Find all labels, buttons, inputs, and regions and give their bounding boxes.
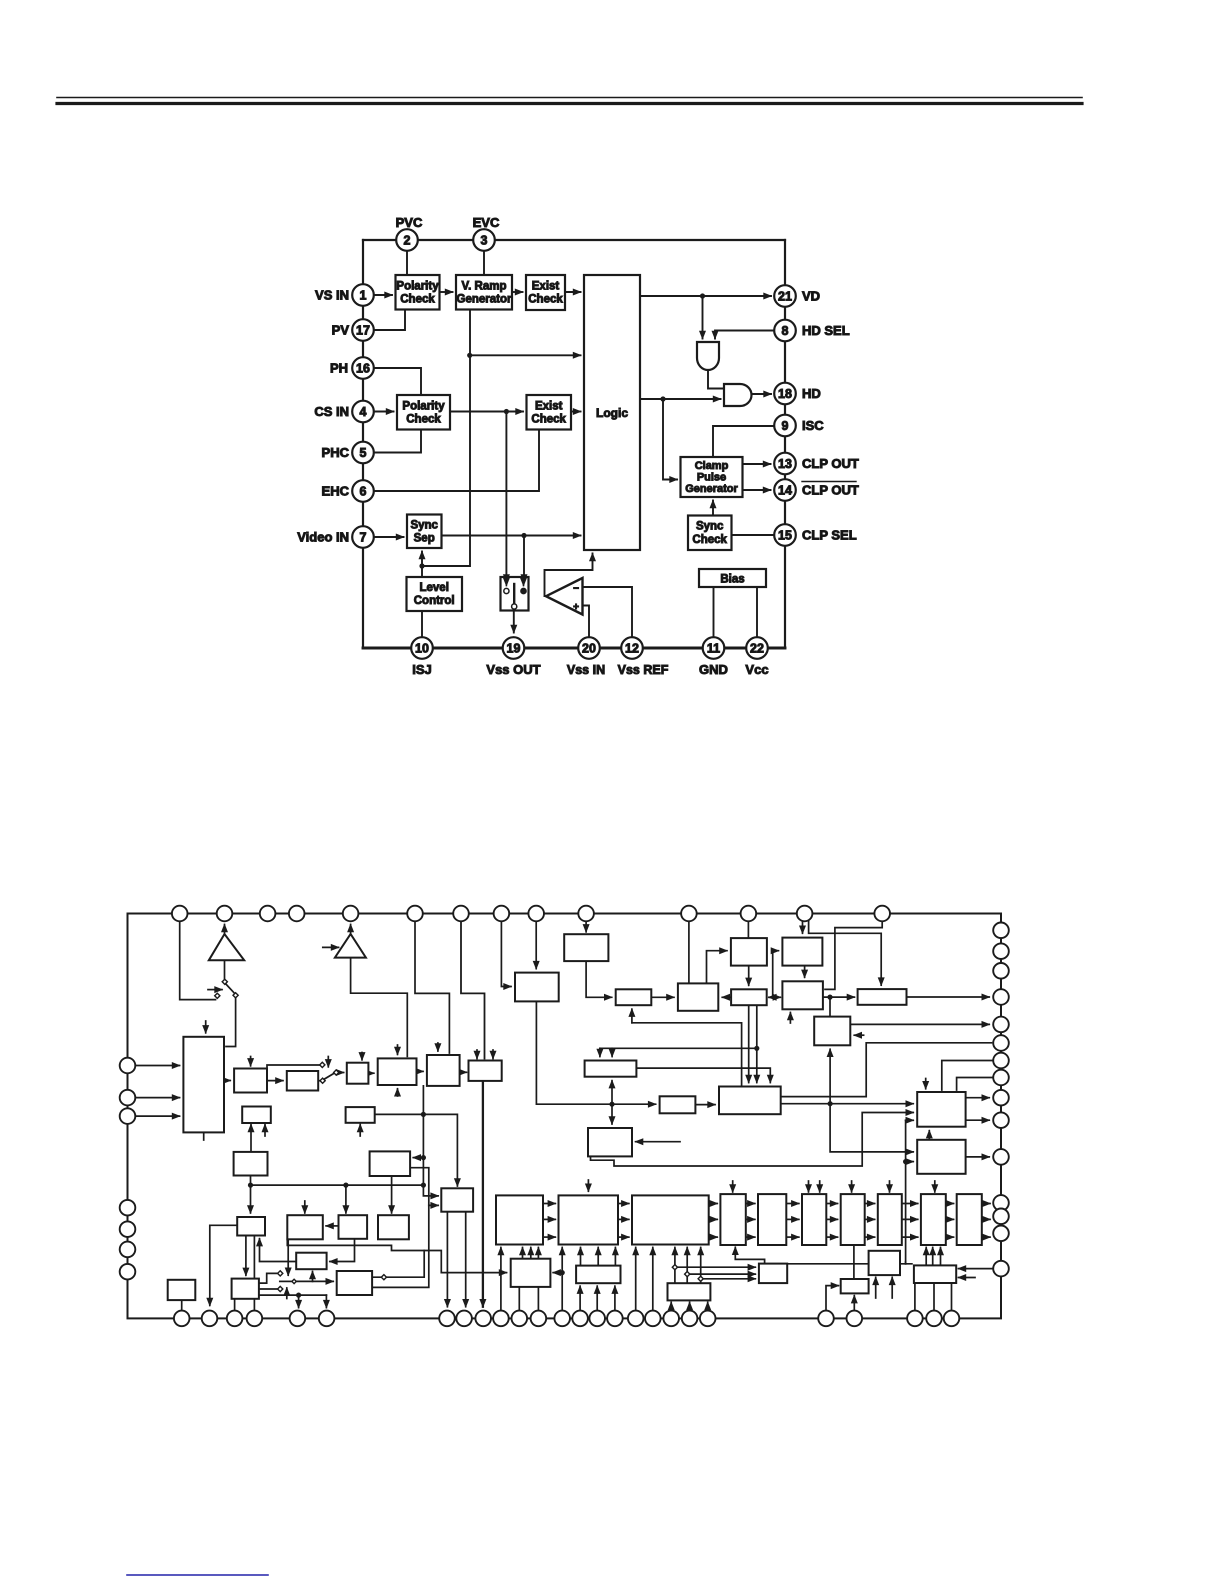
block Sync Sep (407, 515, 442, 549)
left pin to big block wire 3 (135, 1115, 179, 1117)
wire Sync Check to pin15 (732, 534, 775, 536)
pin 5 PHC (352, 442, 374, 464)
block Sync Check (688, 516, 732, 551)
svg-text:Pulse: Pulse (697, 472, 726, 484)
chain arrows gap 5 (786, 1203, 799, 1205)
pin risers into uP3 bottom (670, 1302, 672, 1310)
amp A1 triangle (209, 934, 244, 960)
right pin 15 (993, 1261, 1009, 1277)
pin 16 PH (352, 357, 374, 379)
svg-text:Check: Check (528, 294, 563, 306)
wire block X to block W (695, 1104, 715, 1106)
top pin 12 (741, 906, 757, 922)
node junction on sync line (521, 533, 526, 538)
bottom pin 12 (531, 1311, 547, 1327)
wire switch S3 pivot to b3 (339, 1072, 344, 1074)
top pin 7 (453, 906, 469, 922)
bottom pin 6 (319, 1311, 335, 1327)
chain arrows gap 1 (543, 1203, 555, 1205)
bottom pin 20 (682, 1311, 698, 1327)
wire AND gate 1 output to AND gate 2 (708, 370, 724, 389)
wire block W to right pin C6 (781, 1043, 992, 1097)
wire big block to b1 (224, 1080, 230, 1082)
amp A1 output to top pin (224, 925, 226, 935)
wire top pin A14 crossover to block C2 right (825, 921, 882, 989)
block mid2 (237, 1217, 265, 1236)
block c2 (346, 1107, 375, 1123)
wire Level Control up to Sync Sep (421, 552, 423, 578)
switch S2 actuate arrow (208, 989, 222, 991)
block R arrows into Q6 bottom (925, 1248, 927, 1266)
switch S1 right contact (523, 578, 525, 586)
top pin 1 (172, 906, 188, 922)
block Clamp Pulse Generator (681, 457, 743, 497)
right pin 1 (993, 923, 1009, 939)
block bmid bottoms to pins (234, 1299, 236, 1311)
bottom pin 9 (475, 1311, 491, 1327)
bottom pin 19 (663, 1311, 679, 1327)
wire Exist Check 1 to Logic (565, 291, 581, 293)
block rQ2 (759, 1264, 787, 1284)
pin 17 PV (352, 319, 374, 341)
big input block (183, 1037, 224, 1133)
svg-text:GND: GND (699, 662, 728, 677)
wire Clamp Pulse Generator to pin14 (743, 489, 771, 491)
svg-text:17: 17 (356, 323, 370, 337)
pin 18 HD (774, 383, 796, 405)
pin 19 Vss OUT (503, 637, 525, 659)
stub arrows into block Tb bottom (875, 1277, 877, 1298)
bottom pin 22 (818, 1311, 834, 1327)
branch line into block rQ2 input 1 (675, 1266, 755, 1268)
wire block M1 to block M2 (460, 1071, 467, 1073)
right pin 3 (993, 963, 1009, 979)
right pin 12 (993, 1195, 1009, 1211)
svg-text:Check: Check (692, 534, 727, 546)
switch S4 pivot line to low2 (297, 1280, 334, 1282)
wire block rQ2 up into block Q1 bottom (735, 1247, 764, 1263)
svg-text:Sep: Sep (414, 533, 435, 545)
wire opamp minus input to pin12 (583, 587, 633, 637)
wire block U to right pin C9 (966, 1097, 990, 1099)
right pin 11 (993, 1149, 1009, 1165)
svg-text:HD: HD (802, 386, 821, 401)
wire top pin A11 into block G top (688, 921, 690, 983)
right pin into block R (959, 1268, 994, 1270)
pin 15 CLP SEL (774, 524, 796, 546)
pin 8 HD SEL (774, 320, 796, 342)
block M2 (469, 1061, 502, 1081)
pin 20 Vss IN (578, 637, 600, 659)
svg-text:15: 15 (778, 528, 792, 542)
svg-text:Bias: Bias (720, 574, 744, 586)
right pin 6 (993, 1035, 1009, 1051)
svg-text:16: 16 (356, 361, 370, 375)
top pin 8 (494, 906, 510, 922)
svg-text:10: 10 (415, 641, 429, 655)
header thick rule (57, 102, 1082, 105)
block Exist Check 1 (526, 275, 565, 310)
svg-text:Vcc: Vcc (745, 662, 768, 677)
wire block W to block U (781, 1103, 914, 1105)
wire pin4 to Polarity Check 2 (374, 411, 394, 413)
block blb (168, 1280, 196, 1300)
pin 12 Vss REF (621, 637, 643, 659)
pin 14 CLP OUT bar (774, 479, 796, 501)
svg-text:V. Ramp: V. Ramp (462, 281, 507, 293)
svg-text:EHC: EHC (322, 484, 350, 499)
wire pin3 to V.Ramp Generator top (483, 251, 485, 275)
stub arrow into M1 top (437, 1043, 439, 1051)
svg-text:Logic: Logic (596, 406, 628, 420)
wire block C bottom long run to block X (536, 1001, 655, 1104)
bottom pin 25 (926, 1311, 942, 1327)
AND gate G2 (horizontal) (724, 384, 752, 406)
bottom pin 14 (572, 1311, 588, 1327)
block M2 bottom long drop to bottom pin B9 (482, 1081, 484, 1307)
svg-text:VD: VD (802, 289, 820, 304)
svg-text:Polarity: Polarity (402, 401, 445, 413)
wire Sync Sep to Logic (442, 535, 581, 537)
block Q4 (841, 1194, 865, 1245)
chain arrows gap 10 (982, 1203, 990, 1205)
lowbox left to mid2 bottom riser (260, 1239, 297, 1262)
wire block F bottom to block W top (line b) (756, 1005, 758, 1082)
amp A2 triangle (335, 934, 366, 958)
pin 6 EHC (352, 480, 374, 502)
block r2 to block r1 leftward (326, 1225, 338, 1227)
svg-text:3: 3 (481, 233, 488, 247)
header thin rule (57, 97, 1082, 99)
switch S4 contact diamonds (278, 1271, 283, 1276)
wire block rQ2 to block R (787, 1263, 912, 1265)
AND gate G1 (vertical) (697, 342, 719, 370)
wire Logic to pin21 (640, 295, 771, 297)
block W (719, 1087, 781, 1115)
svg-text:7: 7 (360, 530, 367, 544)
wire top pin A9 into block C top (535, 921, 537, 968)
node junction on logic HD line (660, 396, 665, 401)
node on C2-D wire (827, 995, 832, 1000)
pin 1 VS IN (352, 284, 374, 306)
outer boundary left border (362, 240, 364, 648)
block uP2 (576, 1266, 620, 1284)
vertical bus into block U and block V left (905, 1120, 907, 1264)
block r2 (339, 1215, 368, 1239)
wire junction to Logic (470, 354, 581, 356)
feed from block r1 corner (287, 1239, 424, 1250)
block U3 output loop into small box (410, 1168, 438, 1206)
stub arrow into b4 bottom (397, 1089, 399, 1096)
wire top pin A13 into block B top (802, 921, 804, 933)
wire pin17 to Polarity Check 1 bottom (374, 310, 405, 331)
chain arrows gap 4 (746, 1203, 755, 1205)
svg-text:ISC: ISC (802, 418, 824, 433)
wire pin1 to Polarity Check 1 (374, 294, 392, 296)
block Bias (699, 569, 766, 587)
block Exist Check 2 (527, 395, 572, 430)
right pin 9 (993, 1090, 1009, 1106)
wire Polarity Check 2 to Exist Check 2 (450, 411, 523, 413)
wire pin5 to Polarity Check 2 bottom (374, 430, 421, 453)
wire Bias to pin22 (756, 587, 758, 637)
svg-text:18: 18 (778, 387, 792, 401)
right pin 5 (993, 1017, 1009, 1033)
node junction on V.Ramp run (467, 353, 472, 358)
block r3 (378, 1215, 409, 1239)
switch S1 box (501, 577, 529, 611)
block Q1 (720, 1194, 745, 1245)
node junction above Level Control (419, 563, 424, 568)
chain arrows gap 3 (709, 1203, 718, 1205)
block P2 (559, 1195, 619, 1244)
amp A1 base stem to switch pivot (224, 960, 226, 979)
block lowbox (296, 1253, 326, 1270)
wire block F to block G (leftward) (722, 996, 731, 998)
stub arrow into block E right (854, 1034, 863, 1036)
wire Level Control to pin10 (421, 611, 423, 637)
branch line into block rQ2 input 2 (687, 1273, 755, 1275)
wire AND gate 2 to pin18 (751, 393, 771, 395)
block V. Ramp Generator (456, 275, 512, 310)
right pin 7 (993, 1053, 1009, 1069)
right pin 13 (993, 1209, 1009, 1225)
wire pin2 to Polarity Check 1 top (406, 251, 408, 275)
svg-text:Check: Check (531, 414, 566, 426)
switch S1 left contact (505, 578, 507, 586)
svg-text:PV: PV (332, 323, 350, 338)
block b2 (287, 1071, 318, 1091)
svg-text:Generator: Generator (685, 483, 738, 495)
block S (841, 1279, 869, 1293)
block R (914, 1265, 956, 1283)
stub arrow into block r1 top (304, 1201, 306, 1213)
switch S3 stub arrow (327, 1057, 329, 1067)
block P3 (632, 1195, 709, 1244)
svg-text:Video IN: Video IN (297, 530, 349, 545)
small box (441, 1188, 473, 1211)
wire block H right to block W top (636, 1068, 770, 1082)
footer blue rule (127, 1574, 268, 1576)
svg-text:19: 19 (507, 641, 521, 655)
block C (515, 973, 559, 1002)
svg-text:Sync: Sync (410, 520, 438, 532)
svg-text:Control: Control (414, 595, 455, 607)
arrow up into block D2 bottom (631, 1009, 633, 1023)
block E (814, 1017, 850, 1046)
block mid down to mid2 with long branch (250, 1176, 252, 1213)
wire Logic to AND gate 2 (640, 398, 721, 400)
svg-text:Clamp: Clamp (695, 460, 729, 472)
block Level Control (407, 577, 463, 611)
pin 11 GND (703, 637, 725, 659)
left pin 7 (120, 1264, 136, 1280)
pin riser into P2 bottom with branch to uP1 (561, 1248, 563, 1311)
amp A2 base run to block b4 top (351, 958, 408, 1057)
wire block E to right pin C5 (850, 1023, 989, 1025)
wire junction down to Clamp Pulse Generator (663, 399, 677, 480)
wire block D2 bottom feed to block W top (632, 1023, 742, 1087)
wire riser into block E bottom (829, 1049, 831, 1103)
feed from low2 upper output into block uP1 left (372, 1251, 506, 1278)
left pin 6 (120, 1242, 136, 1258)
wire pin6 to Exist Check 2 bottom (374, 430, 539, 492)
outer boundary top border (363, 239, 785, 241)
pin 10 ISJ (411, 637, 433, 659)
node on block C run (609, 1102, 614, 1107)
bottom pin 7 (439, 1311, 455, 1327)
block mid2 left run to bottom pin (210, 1225, 237, 1305)
wire top pin A6 to block M1 top (415, 921, 449, 1053)
bottom pin 10 (493, 1311, 509, 1327)
bottom pin 3 (227, 1311, 243, 1327)
wire b3 to b4 (368, 1072, 373, 1074)
switch S4 blade (280, 1280, 292, 1282)
bottom pin 16 (607, 1311, 623, 1327)
wire Exist Check 2 to Logic (571, 411, 581, 413)
node on vertical bus (903, 1159, 908, 1164)
svg-text:13: 13 (778, 457, 792, 471)
svg-text:2: 2 (404, 233, 411, 247)
branch down into block r2 top (345, 1185, 347, 1213)
block mid (234, 1152, 268, 1176)
svg-text:PVC: PVC (396, 215, 423, 230)
svg-text:ISJ: ISJ (412, 662, 432, 677)
pin 22 Vcc (746, 637, 768, 659)
svg-text:PH: PH (330, 361, 348, 376)
wire block A down to block F top (748, 966, 750, 986)
chain arrows gap 7 (865, 1203, 875, 1205)
branch down into block E top (829, 997, 831, 1017)
node junction on VD line (700, 293, 705, 298)
pin 7 Video IN (352, 526, 374, 548)
svg-text:Vss IN: Vss IN (567, 663, 605, 677)
bottom pin 24 (907, 1311, 923, 1327)
bottom pin 18 (645, 1311, 661, 1327)
stub arrow into block Y right (636, 1141, 680, 1143)
branch into block U3 right edge (413, 1157, 423, 1159)
branch down into block Y top (611, 1104, 613, 1124)
right pin 8 (993, 1070, 1009, 1086)
svg-text:6: 6 (360, 484, 367, 498)
wire top pin A8 to block C left (501, 921, 511, 986)
wire pin7 to Sync Sep (374, 536, 404, 538)
top pin 4 (289, 906, 305, 922)
wire block F to block C2 with branch to block B (770, 996, 781, 998)
block bmid (232, 1279, 259, 1299)
top pin 11 (681, 906, 697, 922)
top pin 13 (797, 906, 813, 922)
svg-text:Check: Check (406, 414, 441, 426)
svg-text:Generator: Generator (457, 294, 512, 306)
left pin 2 (120, 1090, 136, 1106)
top pin 3 (260, 906, 276, 922)
svg-text:Vss REF: Vss REF (618, 663, 669, 677)
svg-text:Check: Check (400, 294, 435, 306)
pin riser into P1 bottom (500, 1248, 502, 1311)
wire block V up to block U bottom (928, 1131, 930, 1140)
svg-text:EVC: EVC (473, 215, 500, 230)
wire top pin A1 to switch S2 left contact (180, 921, 216, 999)
amp A2 output to top pin (350, 925, 352, 935)
stub arrow into block U top (925, 1079, 927, 1089)
wire block D2 to block G (651, 996, 674, 998)
block G (678, 983, 718, 1010)
block B (782, 938, 822, 966)
svg-text:Exist: Exist (535, 401, 563, 413)
branch from node under E to block V (830, 1104, 913, 1152)
top pin 2 (217, 906, 233, 922)
bottom pin 1 (174, 1311, 190, 1327)
svg-text:CLP OUT: CLP OUT (802, 483, 859, 498)
stub arrow into c1 bottom (264, 1125, 266, 1136)
wire Clamp Pulse Generator to pin13 (743, 463, 771, 465)
pin 13 CLP OUT (774, 453, 796, 475)
stub arrow into P2 top (587, 1180, 589, 1191)
node on line b (754, 1046, 759, 1051)
small box bottoms to pins (446, 1212, 448, 1307)
switch S2 blade (225, 984, 234, 994)
bottom pin 5 (290, 1311, 306, 1327)
chain arrows gap 8 (902, 1203, 918, 1205)
wire block T1 bottom to block D2 (586, 961, 612, 997)
svg-text:+: + (573, 602, 579, 613)
switch S2 right contact run to big block right edge (226, 998, 236, 1047)
svg-text:12: 12 (625, 641, 639, 655)
top pin 10 (578, 906, 594, 922)
fig2 outer border (128, 914, 1002, 1319)
block V (917, 1140, 965, 1174)
left pin 1 (120, 1058, 136, 1074)
block b1 (234, 1069, 267, 1093)
block Q6 (921, 1194, 946, 1245)
amp A2 input arrow (323, 946, 339, 948)
pin 21 VD (774, 285, 796, 307)
svg-text:Polarity: Polarity (396, 281, 439, 293)
block Y (588, 1128, 632, 1156)
wire pin16 to Polarity Check 2 top (374, 368, 421, 395)
block Polarity Check 1 (396, 275, 440, 310)
wire block F bottom to block W top (line a) (748, 1005, 750, 1082)
pin riser into block S bottom (853, 1296, 855, 1311)
pin 9 ISC (774, 415, 796, 437)
block D2 (616, 989, 652, 1005)
chain arrows gap 2 (618, 1203, 629, 1205)
svg-text:21: 21 (778, 289, 792, 303)
svg-text:Level: Level (419, 582, 448, 594)
wire block B down to block C2 top (804, 966, 806, 978)
arrows from block uP1 into P1 bottom (522, 1248, 524, 1259)
bottom pin 17 (628, 1311, 644, 1327)
block C2 (782, 981, 823, 1009)
switch S2 contact diamonds (222, 979, 227, 984)
block D (858, 989, 907, 1005)
left pin to big block wire 2 (135, 1097, 179, 1099)
svg-text:9: 9 (782, 419, 789, 433)
bottom pin 2 (202, 1311, 218, 1327)
vertical from low2 lower output up to small box (374, 1205, 429, 1287)
top pin 6 (407, 906, 423, 922)
svg-text:8: 8 (782, 324, 789, 338)
block Q7 (957, 1194, 982, 1245)
left pin to big block wire 1 (135, 1065, 179, 1067)
wire Bias to pin11 (713, 587, 715, 637)
wire block V to right pin C11 (966, 1156, 990, 1158)
block Tb (869, 1251, 900, 1275)
branch line into block rQ2 input 3 (701, 1278, 756, 1280)
block blb stem to pin (181, 1300, 183, 1311)
block X (660, 1096, 696, 1113)
